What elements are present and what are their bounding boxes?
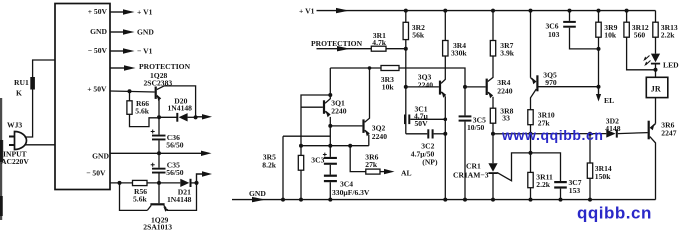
node rail 3R2: [404, 9, 408, 13]
diode D21: [167, 179, 197, 204]
arrow EL output: [596, 87, 614, 105]
resistor 3R9: [596, 11, 618, 87]
node rail 3R4: [443, 9, 447, 13]
power supply box U1: [55, 4, 110, 190]
plug WJ3: [1, 121, 29, 167]
svg-text:330k: 330k: [451, 48, 467, 57]
svg-text:560: 560: [634, 30, 646, 39]
arrow AL output: [384, 169, 395, 174]
svg-text:150k: 150k: [595, 172, 611, 181]
svg-text:PROTECTION: PROTECTION: [139, 62, 191, 71]
svg-text:5.6k: 5.6k: [133, 194, 147, 203]
resistor 3R3: [381, 66, 399, 92]
resistor R56: [133, 180, 148, 203]
svg-text:50V: 50V: [415, 119, 429, 128]
capacitor 3C3: [311, 146, 337, 175]
node GND 3R14: [588, 198, 592, 202]
transistor 1Q28: [144, 71, 173, 101]
wire 3Q4 base column to 3C5: [464, 87, 466, 116]
svg-text:− 50V: − 50V: [88, 46, 108, 55]
node 3Q1 collector tie: [328, 93, 332, 97]
node gate row: [529, 151, 533, 155]
output arrow +V1: [110, 8, 153, 17]
svg-text:10k: 10k: [382, 83, 395, 92]
svg-text:2.2k: 2.2k: [661, 30, 675, 39]
wire +50V feed row: [110, 91, 155, 92]
scan artifact left edge: [0, 98, 3, 220]
svg-text:WJ3: WJ3: [7, 121, 22, 130]
node rail 3Q5 emitter: [529, 9, 533, 13]
capacitor 3C5: [459, 115, 486, 199]
diode 3D2: [605, 116, 647, 137]
wire GND row: [110, 152, 201, 154]
resistor 3R14: [587, 134, 612, 200]
svg-text:GND: GND: [90, 27, 107, 36]
wire 3D2 row: [493, 133, 606, 135]
svg-text:AC220V: AC220V: [1, 157, 29, 166]
wire 1Q29 emitter loop: [167, 183, 197, 211]
svg-text:1N4148: 1N4148: [167, 195, 192, 204]
transistor 3Q6: [648, 121, 677, 200]
node D21 output: [194, 181, 198, 185]
svg-text:+ 50V: + 50V: [87, 85, 107, 94]
diode D20: [168, 97, 196, 122]
resistor 3R1: [371, 31, 406, 51]
transistor 3Q1: [301, 68, 347, 146]
node rail 3R9: [597, 9, 601, 13]
svg-text:8.2k: 8.2k: [262, 161, 276, 170]
node GND CR1: [491, 198, 495, 202]
resistor 3R12: [624, 11, 656, 70]
svg-text:1N4148: 1N4148: [168, 104, 193, 113]
wire AL branch: [350, 146, 366, 172]
node 3C2 right: [443, 132, 447, 136]
svg-text:− 50V: − 50V: [86, 169, 106, 178]
transistor 3Q5: [531, 11, 599, 110]
node EL junction: [597, 85, 601, 89]
capacitor C36: [151, 117, 184, 153]
output arrow -V1: [110, 47, 153, 56]
svg-text:PROTECTION: PROTECTION: [311, 39, 363, 48]
resistor R66: [127, 91, 157, 126]
svg-text:27k: 27k: [365, 160, 378, 169]
svg-text:56/50: 56/50: [166, 168, 184, 177]
svg-text:CR1: CR1: [466, 162, 481, 171]
arrow GND rail: [252, 197, 266, 202]
node 3C3 top: [328, 144, 332, 148]
svg-text:www.qqibb.cn: www.qqibb.cn: [501, 127, 604, 143]
wire emitter node to D20: [159, 116, 177, 118]
svg-text:+ V1: + V1: [299, 7, 315, 16]
wire 1Q28 emitter down: [158, 99, 160, 117]
arrow PROTECTION line: [337, 46, 350, 51]
capacitor 3C7: [531, 153, 582, 200]
svg-text:AL: AL: [401, 169, 412, 178]
svg-text:2SA1013: 2SA1013: [143, 223, 172, 231]
svg-text:33: 33: [502, 114, 510, 123]
wire PROTECTION line: [317, 48, 372, 50]
wire 3R2 down to 3C1 3C2 column: [405, 49, 407, 134]
transistor 3Q4: [465, 56, 513, 108]
thyristor CR1: [453, 153, 531, 200]
resistor 3R10: [528, 110, 555, 153]
output arrow -50V section: [197, 171, 213, 183]
svg-text:10/50: 10/50: [467, 123, 485, 132]
wire emitter row y146: [301, 145, 369, 147]
transistor 3Q2: [362, 68, 387, 146]
svg-text:+ V1: + V1: [137, 8, 153, 17]
resistor RU1: [14, 77, 35, 98]
svg-text:153: 153: [569, 186, 581, 195]
node GND row: [157, 151, 161, 155]
svg-text:2240: 2240: [497, 86, 512, 95]
node 1Q28 emitter: [157, 115, 161, 119]
svg-text:(NP): (NP): [422, 157, 438, 166]
wire 1Q29 collector loop: [120, 183, 148, 211]
resistor 3R7: [490, 11, 514, 58]
node GND 3R5: [299, 198, 303, 202]
svg-text:GND: GND: [92, 152, 109, 161]
node GND 3R11: [529, 198, 533, 202]
svg-text:LED: LED: [663, 60, 679, 69]
svg-text:970: 970: [545, 78, 557, 87]
resistor 3R11: [528, 153, 553, 200]
svg-text:RU1: RU1: [14, 78, 29, 87]
transistor 3Q3: [406, 56, 446, 199]
resistor 3R6: [365, 153, 385, 174]
node GND 3C4: [328, 198, 332, 202]
svg-text:2.2k: 2.2k: [536, 180, 550, 189]
node R66 top: [128, 89, 132, 93]
svg-text:− V1: − V1: [137, 47, 153, 56]
node GND 3C7: [559, 198, 563, 202]
node 3Q2 collector on 3R3 row: [368, 66, 372, 70]
node LED cathode: [654, 68, 658, 72]
node 3C1 right: [444, 118, 448, 122]
node AL branch: [348, 144, 352, 148]
svg-text:56k: 56k: [412, 30, 425, 39]
node rail 3R7: [491, 9, 495, 13]
svg-text:+ 50V: + 50V: [88, 7, 108, 16]
wire +V1 rail: [317, 10, 656, 12]
arrow +V1 rail: [336, 8, 349, 13]
svg-text:4148: 4148: [605, 124, 620, 133]
output arrow after D20: [196, 114, 212, 119]
svg-text:3C3: 3C3: [311, 155, 324, 164]
wire 3Q1 collector-base tie: [301, 95, 330, 146]
node rail 3R12: [625, 9, 629, 13]
wire gnd stub row: [283, 136, 330, 199]
svg-text:GND: GND: [249, 189, 266, 198]
svg-text:K: K: [16, 89, 22, 98]
resistor 3R2: [403, 11, 425, 49]
node GND 3Q3 emitter: [443, 198, 447, 202]
node -50V left: [118, 181, 122, 185]
node 3R1 3R2 junction: [404, 47, 408, 51]
resistor 3R5: [262, 146, 303, 200]
svg-text:JR: JR: [651, 84, 661, 93]
svg-text:5.6k: 5.6k: [135, 107, 149, 116]
resistor 3R4: [443, 11, 468, 58]
svg-text:3.9k: 3.9k: [500, 48, 514, 57]
resistor 3R13: [653, 11, 678, 54]
wire plug to RU1 to box: [25, 60, 56, 145]
capacitor 3C4: [324, 175, 370, 200]
node 3C6 3R9 junction: [597, 47, 601, 51]
output arrow GND row: [201, 151, 212, 156]
LED: [643, 54, 679, 78]
capacitor 3C2: [406, 129, 446, 166]
svg-text:2240: 2240: [372, 132, 387, 141]
node D20 output: [194, 115, 198, 119]
node 3Q2 base row junction: [328, 124, 332, 128]
node 3R5 top: [299, 144, 303, 148]
resistor 3R8: [490, 107, 513, 164]
svg-text:CR1AM−3: CR1AM−3: [453, 171, 489, 180]
transistor 1Q29: [143, 183, 172, 232]
wire -50V row: [110, 182, 180, 184]
svg-text:EL: EL: [604, 96, 614, 105]
svg-text:56/50: 56/50: [166, 140, 184, 149]
svg-text:330μF/6.3V: 330μF/6.3V: [332, 188, 370, 197]
node 3R10 3D2 row: [529, 132, 533, 136]
svg-text:GND: GND: [137, 28, 154, 37]
svg-text:qqibb.cn: qqibb.cn: [577, 204, 652, 223]
wire GND rail: [232, 199, 656, 201]
svg-text:2240: 2240: [331, 106, 346, 115]
relay JR: [646, 77, 668, 123]
node 3Q4 base corner: [463, 85, 467, 89]
wire 3R3 row: [330, 68, 465, 87]
node 3R14 top: [588, 132, 592, 136]
output arrow GND: [110, 28, 154, 37]
svg-text:10k: 10k: [604, 30, 617, 39]
output arrow PROTECTION: [110, 62, 191, 71]
wire 1Q28 collector to D20 node: [164, 86, 196, 117]
svg-text:4.7k: 4.7k: [372, 38, 386, 47]
node 3Q3 base: [404, 85, 408, 89]
svg-text:2240: 2240: [418, 80, 433, 89]
capacitor 3C6: [546, 11, 599, 49]
svg-text:103: 103: [548, 30, 560, 39]
node GND stub: [281, 198, 285, 202]
node GND 3C5: [463, 198, 467, 202]
node 3D2 row left: [491, 132, 495, 136]
node C35 bottom: [157, 181, 161, 185]
svg-text:2247: 2247: [661, 128, 676, 137]
capacitor C35: [151, 153, 184, 183]
wire 3Q2 base row: [330, 125, 362, 127]
capacitor 3C1: [404, 104, 445, 128]
node rail 3C6: [568, 9, 572, 13]
